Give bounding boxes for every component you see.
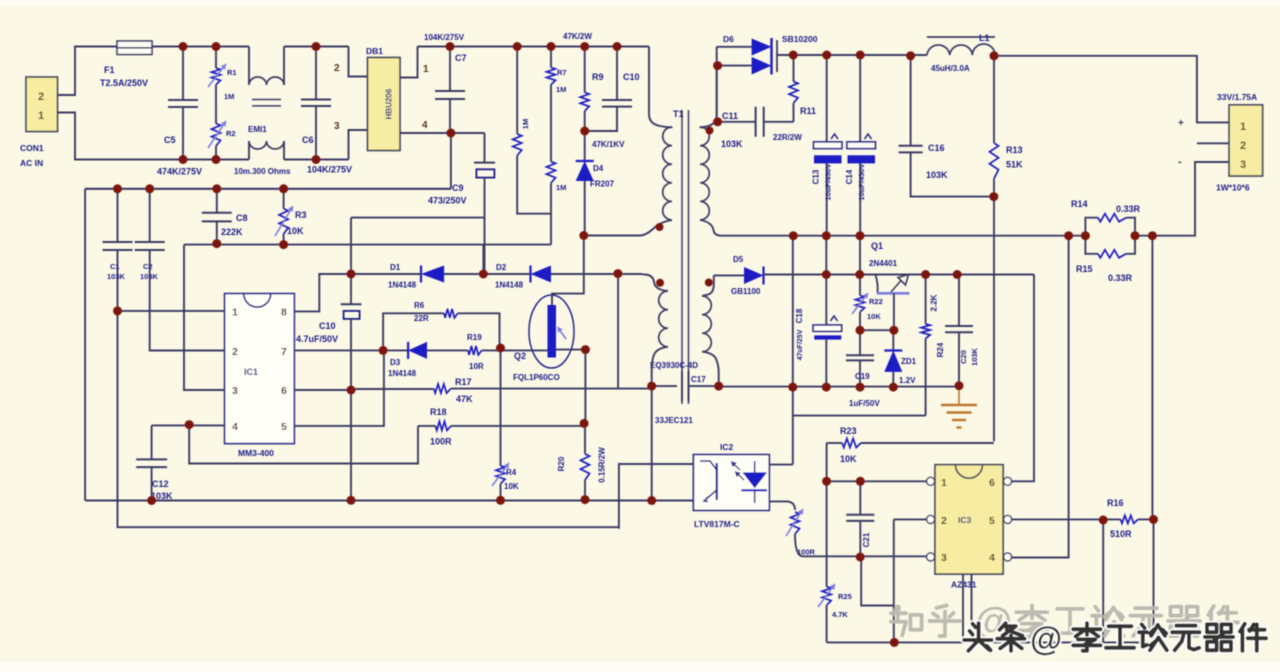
svg-text:EMI1: EMI1 (248, 125, 267, 134)
junction dots AC section (179, 42, 321, 164)
mosfet Q2 (513, 295, 574, 382)
wire startup row (184, 244, 551, 246)
capacitor C11 snubber (717, 66, 794, 149)
wire IC2 collector to IC1 return (619, 464, 694, 529)
svg-text:D6: D6 (723, 34, 734, 44)
svg-text:474K/275V: 474K/275V (157, 167, 202, 177)
capacitor C5 (157, 47, 202, 177)
svg-text:0.33R: 0.33R (1108, 273, 1133, 283)
svg-text:1.2V: 1.2V (899, 376, 916, 385)
svg-text:IC1: IC1 (244, 367, 258, 377)
junction dots gnd bus (147, 495, 656, 505)
svg-text:R6: R6 (414, 301, 425, 310)
svg-text:L1: L1 (979, 33, 990, 43)
svg-text:R18: R18 (430, 407, 447, 417)
svg-text:T2.5A/250V: T2.5A/250V (100, 78, 148, 88)
varistor R2 (208, 121, 236, 160)
resistor R8 (513, 47, 551, 214)
svg-text:10K: 10K (504, 482, 519, 491)
svg-text:103K: 103K (140, 272, 159, 281)
svg-text:R15: R15 (1076, 264, 1093, 274)
svg-text:4: 4 (989, 552, 995, 564)
svg-text:LTV817M-C: LTV817M-C (694, 519, 740, 529)
wire IC3 pin2 drop (894, 519, 927, 642)
capacitor C1 (103, 189, 133, 311)
wire R7 to R10 (550, 85, 552, 162)
resistor R16 (1103, 498, 1153, 539)
sense resistor R15 (1076, 236, 1135, 283)
common-mode choke L2 core (248, 100, 281, 135)
svg-text:3: 3 (1240, 159, 1246, 171)
wire CON1 pin2 to fuse (58, 47, 118, 96)
svg-text:10K: 10K (867, 312, 881, 321)
capacitor C7 (435, 47, 467, 134)
svg-text:D3: D3 (390, 358, 401, 367)
wire IC1 pin4 jog (189, 425, 418, 464)
svg-text:FQL1P60CO: FQL1P60CO (513, 373, 560, 382)
resistor R23 (827, 426, 994, 464)
diode D4 (576, 131, 625, 236)
svg-text:MM3-400: MM3-400 (238, 448, 274, 458)
svg-text:47K/1KV: 47K/1KV (592, 140, 625, 149)
wire R23 to IC3 pin1 (826, 443, 828, 481)
transformer T1 secondary upper winding (700, 47, 722, 236)
svg-text:47K: 47K (456, 394, 473, 404)
svg-text:10uF/450V: 10uF/450V (824, 163, 833, 200)
svg-text:C10: C10 (319, 321, 336, 331)
resistor R22 (852, 236, 883, 331)
svg-text:R25: R25 (838, 592, 852, 601)
wire VCC charge row (551, 273, 644, 276)
svg-text:10m.300 Ohms: 10m.300 Ohms (234, 167, 291, 176)
wire output positive rail (995, 56, 1229, 123)
svg-text:D4: D4 (593, 164, 604, 173)
wire right bottom riser (1153, 519, 1155, 642)
svg-text:R19: R19 (467, 333, 482, 342)
wire sense kelvin right (1151, 236, 1153, 520)
svg-text:0.33R: 0.33R (1116, 204, 1141, 214)
resistor R7 (547, 47, 567, 95)
resistor R4 (492, 348, 519, 500)
svg-text:-: - (1178, 156, 1182, 168)
connector CON2 (1178, 92, 1263, 193)
svg-text:47K/2W: 47K/2W (563, 32, 592, 41)
wire IC3 anode stubs (963, 574, 972, 640)
wire AC line top rail (152, 46, 249, 48)
junction dots filter bus (113, 184, 288, 249)
svg-text:C10: C10 (623, 72, 640, 82)
wire bridge pin4 output (400, 120, 485, 133)
capacitor C16 (899, 56, 994, 197)
svg-text:R9: R9 (592, 72, 604, 82)
wire output pin2 stub (1197, 142, 1229, 144)
svg-text:4.7uF/50V: 4.7uF/50V (296, 334, 338, 344)
capacitor C21 (846, 481, 874, 557)
svg-text:10K: 10K (287, 226, 304, 236)
wire IC3 pin1 row (827, 480, 927, 482)
svg-text:R7: R7 (557, 68, 567, 77)
svg-text:R22: R22 (869, 297, 883, 306)
svg-text:C2: C2 (143, 262, 153, 271)
wire R16 bottom riser (1102, 520, 1104, 642)
svg-text:104K/275V: 104K/275V (424, 33, 465, 42)
svg-text:473/250V: 473/250V (428, 196, 467, 206)
svg-text:R24: R24 (936, 342, 945, 357)
svg-text:2: 2 (1240, 140, 1246, 152)
svg-text:ZD1: ZD1 (901, 357, 917, 366)
svg-text:103K: 103K (970, 347, 979, 366)
resistor R18 (418, 407, 584, 447)
svg-text:R1: R1 (227, 68, 237, 77)
svg-text:1M: 1M (556, 183, 566, 192)
svg-text:C20: C20 (959, 350, 968, 364)
svg-text:22R/2W: 22R/2W (773, 133, 802, 142)
svg-text:1N4148: 1N4148 (388, 369, 417, 378)
svg-text:1N4148: 1N4148 (388, 281, 417, 290)
transformer T1 primary winding (585, 47, 684, 236)
svg-text:R17: R17 (455, 377, 472, 387)
capacitor C19 (846, 330, 880, 408)
capacitor C6 (301, 47, 352, 175)
bridge rectifier DB1 (366, 46, 400, 151)
wire IC3 pin6 to limit rail (1012, 275, 1034, 482)
svg-text:C14: C14 (845, 169, 854, 184)
wire IC3 pin5 row (1012, 518, 1104, 520)
junction dots return rail (788, 192, 998, 392)
transformer T1 secondary lower winding (702, 275, 719, 386)
wire VCC jog (351, 218, 485, 274)
wire sense to output negative (1135, 162, 1229, 236)
wire AC to bridge pin3 (334, 121, 368, 160)
wire startup tap riser (482, 245, 484, 274)
junction dots gate (185, 344, 590, 430)
ground symbol (941, 386, 977, 428)
svg-text:C1: C1 (110, 262, 120, 271)
wire Q1 collector (893, 293, 895, 330)
capacitor C12 (136, 425, 225, 501)
wire bridge pin1 to DC+ rail (400, 47, 429, 78)
svg-text:1M: 1M (556, 85, 566, 94)
resistor R17 (351, 377, 618, 404)
fuse F1 (100, 41, 152, 88)
junction dots DC bus (446, 42, 622, 240)
svg-text:EQ3930C-4D: EQ3930C-4D (650, 361, 698, 370)
common-mode choke L2 top winding (249, 47, 349, 86)
svg-text:103K: 103K (107, 272, 126, 281)
resistor R9 (563, 32, 604, 131)
svg-text:C18: C18 (795, 308, 804, 323)
resistor R25 (818, 481, 852, 642)
svg-text:R4: R4 (506, 468, 517, 477)
optocoupler IC2 (693, 442, 769, 529)
wire AC to bridge pin2 (334, 47, 368, 77)
svg-text:10R: 10R (469, 362, 484, 371)
zener ZD1 (884, 330, 916, 387)
svg-text:1uF/50V: 1uF/50V (849, 399, 880, 408)
wire primary ground left riser (84, 189, 86, 501)
capacitor C9 (428, 133, 495, 274)
svg-text:D5: D5 (733, 255, 744, 264)
resistor R20 (557, 423, 607, 499)
junction dots secondary top (713, 51, 998, 127)
wire pin3 to pin2 jog (861, 557, 894, 605)
svg-text:1M: 1M (224, 92, 234, 101)
wire IC1 pin5 row (294, 350, 384, 426)
wire R1 to R2 (215, 85, 217, 124)
wire DC return bus (85, 133, 451, 189)
ic IC3 (927, 465, 1012, 590)
svg-text:F1: F1 (104, 65, 115, 75)
capacitor C10 snubber (585, 47, 640, 132)
svg-text:C13: C13 (812, 169, 821, 184)
wire aux gnd drop (651, 386, 653, 500)
svg-text:1: 1 (232, 307, 238, 319)
wire R13 feedback drop (993, 197, 995, 442)
svg-text:510R: 510R (1110, 529, 1132, 539)
wire Q2 source (556, 350, 585, 424)
varistor R1 (208, 47, 237, 102)
svg-text:6: 6 (989, 477, 995, 489)
diode D6 (717, 34, 818, 75)
wire IC1 pin3 riser (184, 245, 225, 390)
resistor R11 (773, 55, 816, 142)
watermark toutiao dark (964, 620, 1266, 657)
svg-text:33V/1.75A: 33V/1.75A (1217, 92, 1257, 102)
svg-text:C5: C5 (164, 135, 176, 145)
wire IC2 anode riser (769, 236, 793, 465)
svg-text:C6: C6 (302, 135, 314, 145)
wire filter top bus (85, 188, 451, 190)
wire secondary positive rail (793, 54, 927, 56)
svg-text:+: + (1178, 118, 1184, 129)
svg-text:45uH/3.0A: 45uH/3.0A (931, 64, 970, 73)
wire IC1 pin1 row (118, 310, 225, 312)
svg-text:2: 2 (941, 515, 947, 527)
svg-text:222K: 222K (221, 227, 243, 237)
svg-text:10K: 10K (840, 454, 857, 464)
svg-text:D2: D2 (496, 263, 507, 272)
capacitor C14 electrolytic (845, 55, 875, 236)
svg-text:103K: 103K (926, 170, 948, 180)
svg-text:HBU206: HBU206 (385, 88, 394, 119)
watermark zhihu light (891, 601, 1238, 643)
svg-text:R16: R16 (1107, 498, 1124, 508)
resistor R3 (275, 189, 307, 245)
svg-text:2N4401: 2N4401 (869, 259, 898, 268)
junction dots vcc (113, 269, 622, 315)
capacitor C10 vcc (296, 274, 362, 500)
resistor R13 (990, 56, 1024, 197)
svg-text:IC2: IC2 (720, 442, 734, 452)
wire CON1 pin1 to AC neutral rail (58, 113, 184, 160)
wire pin1 to opto return (118, 311, 619, 527)
svg-text:C11: C11 (722, 111, 738, 121)
svg-text:R11: R11 (800, 106, 816, 116)
svg-text:IC3: IC3 (958, 515, 972, 525)
resistor R6 (383, 301, 499, 350)
wire opto cathode to IC3 pin3 (803, 555, 927, 557)
svg-text:R20: R20 (557, 456, 566, 471)
junction dots aux (647, 382, 723, 391)
svg-text:22R: 22R (414, 314, 429, 323)
capacitor C13 electrolytic (812, 55, 842, 236)
diode D5 (714, 255, 764, 296)
svg-text:6: 6 (281, 385, 287, 397)
svg-text:R23: R23 (840, 426, 857, 436)
wire IC1 pin6 row (294, 389, 351, 391)
svg-text:Q1: Q1 (871, 241, 883, 251)
svg-text:3: 3 (941, 552, 947, 564)
capacitor C20 (945, 275, 979, 386)
svg-text:2: 2 (334, 63, 340, 74)
junction dots feedback (822, 477, 1158, 647)
capacitor C8 (202, 189, 248, 245)
wire aux node row (618, 388, 652, 390)
capacitor C17 (652, 371, 719, 401)
junction dots limit rail (822, 270, 962, 335)
wire secondary 0V rail (722, 235, 1085, 237)
svg-text:R14: R14 (1071, 199, 1088, 209)
svg-text:4: 4 (422, 120, 428, 131)
wire R24 bottom row (793, 415, 926, 417)
wire bottom feedback bus (827, 641, 1154, 643)
capacitor C18 electrolytic (795, 236, 842, 387)
transistor Q1 (869, 241, 910, 293)
svg-text:@: @ (1030, 620, 1062, 657)
sense resistor R14 (1071, 199, 1141, 236)
svg-text:FR207: FR207 (590, 180, 615, 189)
wire primary gnd bus (85, 500, 693, 502)
wire Q2 drain (552, 236, 584, 306)
svg-text:100R: 100R (430, 437, 452, 447)
svg-text:103K: 103K (721, 139, 743, 149)
svg-text:51K: 51K (1006, 160, 1023, 170)
capacitor C2 (135, 189, 225, 351)
resistor R21 (769, 501, 815, 556)
svg-text:104K/275V: 104K/275V (307, 165, 352, 175)
svg-text:2: 2 (38, 91, 44, 103)
wire secondary return rail (719, 386, 960, 388)
svg-text:47uF/25V: 47uF/25V (797, 329, 804, 360)
diode D1 (351, 263, 483, 290)
wire IC1 pin8 riser (294, 274, 351, 311)
svg-text:R2: R2 (226, 129, 236, 138)
wire collector node row (860, 329, 894, 331)
svg-text:C21: C21 (862, 532, 871, 547)
svg-text:C12: C12 (152, 479, 169, 489)
svg-text:C17: C17 (691, 375, 706, 384)
svg-text:C9: C9 (452, 183, 464, 193)
svg-text:C19: C19 (855, 372, 870, 381)
svg-text:100R: 100R (797, 548, 816, 557)
resistor R10 (547, 162, 567, 245)
svg-text:1N4148: 1N4148 (495, 281, 524, 290)
svg-text:2: 2 (232, 346, 238, 358)
svg-text:C16: C16 (928, 143, 945, 153)
svg-text:5: 5 (281, 421, 287, 433)
svg-text:4: 4 (232, 421, 238, 433)
svg-text:1M: 1M (521, 119, 530, 129)
svg-text:4.7K: 4.7K (832, 610, 848, 619)
svg-text:1W*10*6: 1W*10*6 (1216, 183, 1250, 193)
wire Q1 base rail (764, 274, 1035, 276)
resistor R24 (921, 275, 945, 416)
svg-text:C7: C7 (455, 53, 467, 63)
svg-text:GB1100: GB1100 (731, 287, 761, 296)
connector CON1 (20, 77, 58, 168)
diode D3 (388, 342, 427, 378)
common-mode choke L2 bottom winding (183, 141, 349, 176)
wire gate feed riser (617, 274, 619, 389)
wire IC1 pin7 row (294, 349, 408, 351)
svg-text:DB1: DB1 (366, 46, 383, 56)
resistor R19 (427, 333, 548, 371)
svg-text:D1: D1 (390, 263, 401, 272)
svg-text:R3: R3 (295, 210, 307, 220)
ic IC1 (225, 294, 295, 458)
wire DC+ bus top rail (418, 33, 650, 47)
svg-text:7: 7 (281, 346, 287, 358)
transformer polarity dots (656, 127, 714, 287)
svg-text:SB10200: SB10200 (782, 34, 818, 44)
svg-text:3: 3 (334, 121, 340, 132)
svg-text:CON1: CON1 (20, 143, 44, 153)
svg-text:8: 8 (281, 307, 287, 319)
svg-text:10uF/450V: 10uF/450V (857, 163, 866, 200)
svg-text:Q2: Q2 (514, 351, 526, 361)
svg-text:R13: R13 (1006, 145, 1023, 155)
svg-text:1: 1 (38, 110, 44, 122)
svg-text:AC IN: AC IN (20, 158, 43, 168)
svg-text:3: 3 (232, 385, 238, 397)
transformer T1 core (650, 110, 706, 425)
svg-text:C8: C8 (236, 213, 248, 223)
svg-text:2.2K: 2.2K (930, 294, 939, 311)
svg-text:0.15R/2W: 0.15R/2W (598, 447, 607, 483)
diode D2 (483, 263, 551, 290)
wire sense kelvin left (1012, 236, 1069, 558)
svg-text:1: 1 (423, 64, 429, 75)
inductor L1 (927, 33, 995, 73)
svg-text:5: 5 (989, 515, 995, 527)
svg-text:33JEC121: 33JEC121 (655, 416, 693, 425)
junction dots 0V rail (789, 231, 1157, 240)
svg-text:1: 1 (941, 477, 947, 489)
transformer T1 auxiliary winding (644, 275, 668, 387)
svg-text:1: 1 (1240, 121, 1246, 133)
